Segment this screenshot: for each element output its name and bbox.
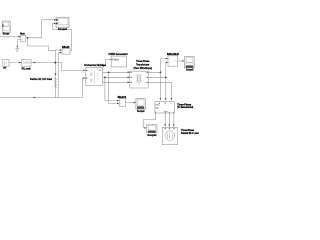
svg-text:a b c: a b c	[164, 111, 168, 113]
svg-text:Scope3: Scope3	[186, 68, 194, 71]
svg-text:Pulses: Pulses	[112, 59, 119, 62]
svg-text:Series RL DC load: Series RL DC load	[30, 77, 52, 81]
svg-text:RLcab: RLcab	[22, 68, 32, 71]
svg-text:(Two Windings): (Two Windings)	[133, 66, 152, 70]
svg-text:Scope4: Scope4	[147, 134, 157, 137]
svg-text:Mult: Mult	[62, 46, 70, 49]
svg-text:Mult1: Mult1	[118, 96, 127, 99]
svg-text:PWM Generator: PWM Generator	[108, 52, 128, 56]
svg-text:Parallel RLC Load: Parallel RLC Load	[181, 133, 199, 135]
svg-text:Scope: Scope	[3, 32, 10, 35]
svg-text:Scope1: Scope1	[137, 110, 145, 113]
svg-text:Scope2: Scope2	[58, 28, 68, 31]
svg-text:Universal Bridge: Universal Bridge	[84, 63, 106, 67]
svg-text:Mux: Mux	[20, 32, 25, 35]
svg-text:Iabc: Iabc	[155, 108, 159, 110]
svg-text:Mult2: Mult2	[167, 53, 180, 56]
svg-text:(V-I Measurement): (V-I Measurement)	[177, 106, 193, 109]
